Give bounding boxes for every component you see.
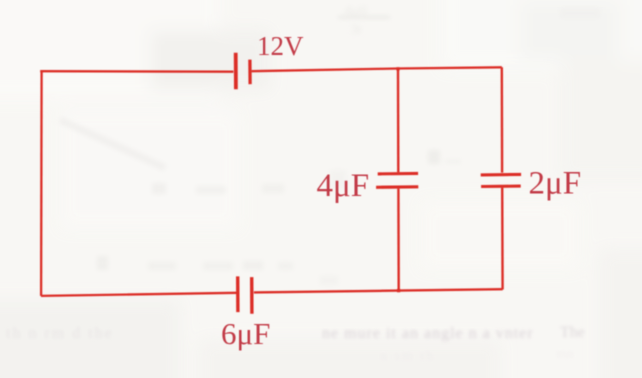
wire top left segment bbox=[40, 70, 233, 73]
svg-text:The: The bbox=[560, 324, 585, 341]
svg-text:mn: mn bbox=[556, 347, 574, 362]
svg-text:u sm th: u sm th bbox=[380, 349, 435, 364]
label 6uF bbox=[221, 316, 270, 351]
label 2uF bbox=[529, 166, 582, 202]
svg-text:4μF: 4μF bbox=[317, 168, 370, 204]
node junction top bbox=[396, 67, 399, 70]
svg-text:ne mure it an angle n a: ne mure it an angle n a vnter bbox=[322, 325, 534, 342]
svg-text:12V: 12V bbox=[257, 31, 304, 61]
battery V1 right plate bbox=[248, 60, 252, 85]
capacitor C2 2uF top plate bbox=[481, 173, 521, 177]
svg-text:3t: 3t bbox=[350, 22, 363, 38]
wire right vertical lower bbox=[501, 188, 504, 290]
capacitor C2 2uF bottom plate bbox=[481, 185, 521, 188]
wire right vertical upper bbox=[501, 67, 504, 172]
svg-text:th n rm d the: th n rm d the bbox=[6, 325, 114, 342]
wire left vertical bbox=[40, 70, 43, 296]
capacitor C1 4uF bottom plate bbox=[376, 185, 418, 189]
wire bottom left segment bbox=[41, 293, 237, 296]
svg-text:4μ0: 4μ0 bbox=[344, 3, 367, 19]
circuit drawing bbox=[40, 53, 521, 314]
node junction bottom bbox=[397, 289, 400, 292]
battery V1 left plate bbox=[234, 53, 238, 90]
label 4uF bbox=[317, 168, 370, 204]
faint bleed-through marks interior bbox=[60, 120, 461, 285]
wire top right segment bbox=[252, 67, 502, 71]
wire bottom right segment bbox=[254, 289, 503, 292]
faint bleed-through text row bottom bbox=[6, 324, 585, 364]
wire middle branch upper bbox=[397, 68, 400, 172]
faint bleed-through fraction top right bbox=[338, 3, 600, 38]
capacitor C1 4uF top plate bbox=[378, 172, 418, 176]
capacitor C3 6uF left plate bbox=[236, 276, 240, 312]
label 12V bbox=[257, 31, 304, 61]
svg-text:2μF: 2μF bbox=[529, 166, 582, 202]
svg-text:6μF: 6μF bbox=[221, 316, 270, 351]
capacitor C3 6uF right plate bbox=[250, 277, 254, 314]
wire middle branch lower bbox=[397, 189, 400, 291]
